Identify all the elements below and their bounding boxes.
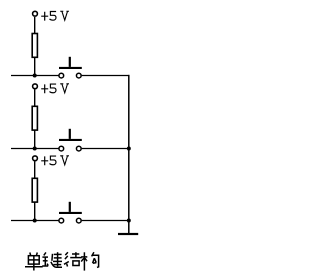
switch S1 contact left [59,73,64,78]
wire net1 left segment [11,75,59,77]
node +5V terminal 2 [33,84,38,89]
ground [118,233,138,235]
label +5V (3) [41,156,69,165]
switch S3 contact left [59,218,64,223]
wire net3 right segment [82,220,130,222]
junction dot bus/net3 [127,219,131,223]
switch S3 actuator bar [59,212,82,214]
glyph 结 [64,252,82,266]
resistor R3 [32,178,37,202]
switch S1 actuator stem [69,57,71,67]
junction dot bus/net2 [127,147,131,151]
wire net3 left segment [11,220,59,222]
node +5V terminal 3 [33,156,38,161]
switch S3 actuator stem [69,202,71,212]
resistor R2 [32,106,37,130]
junction dot R3/net3 [33,219,37,223]
switch S2 contact right [76,146,81,151]
wire R1 to net1 [34,57,36,75]
junction dot R1/net1 [33,74,37,78]
glyph 键 [42,252,62,267]
caption 单键结构 (drawn as strokes) [25,252,99,270]
label +5V (1) [41,11,69,20]
wire terminal3 to R3 [34,162,36,179]
switch S1 contact right [76,73,81,78]
resistor R1 [32,34,37,58]
wire net2 right segment [82,148,130,150]
switch S2 actuator bar [59,139,82,141]
switch S2 contact left [59,146,64,151]
glyph 单 [25,253,43,271]
junction dot R2/net2 [33,147,37,151]
switch S2 actuator stem [69,129,71,139]
wire R3 to net3 [34,202,36,220]
switch S3 contact right [76,218,81,223]
node +5V terminal 1 [33,11,38,16]
label +5V (2) [41,84,69,93]
wire right bus [128,75,130,233]
wire terminal1 to R1 [34,17,36,34]
glyph 构 [81,252,99,270]
wire R2 to net2 [34,130,36,148]
wire terminal2 to R2 [34,90,36,107]
wire net2 left segment [11,148,59,150]
wire net1 right segment [82,75,130,77]
switch S1 actuator bar [59,67,82,69]
